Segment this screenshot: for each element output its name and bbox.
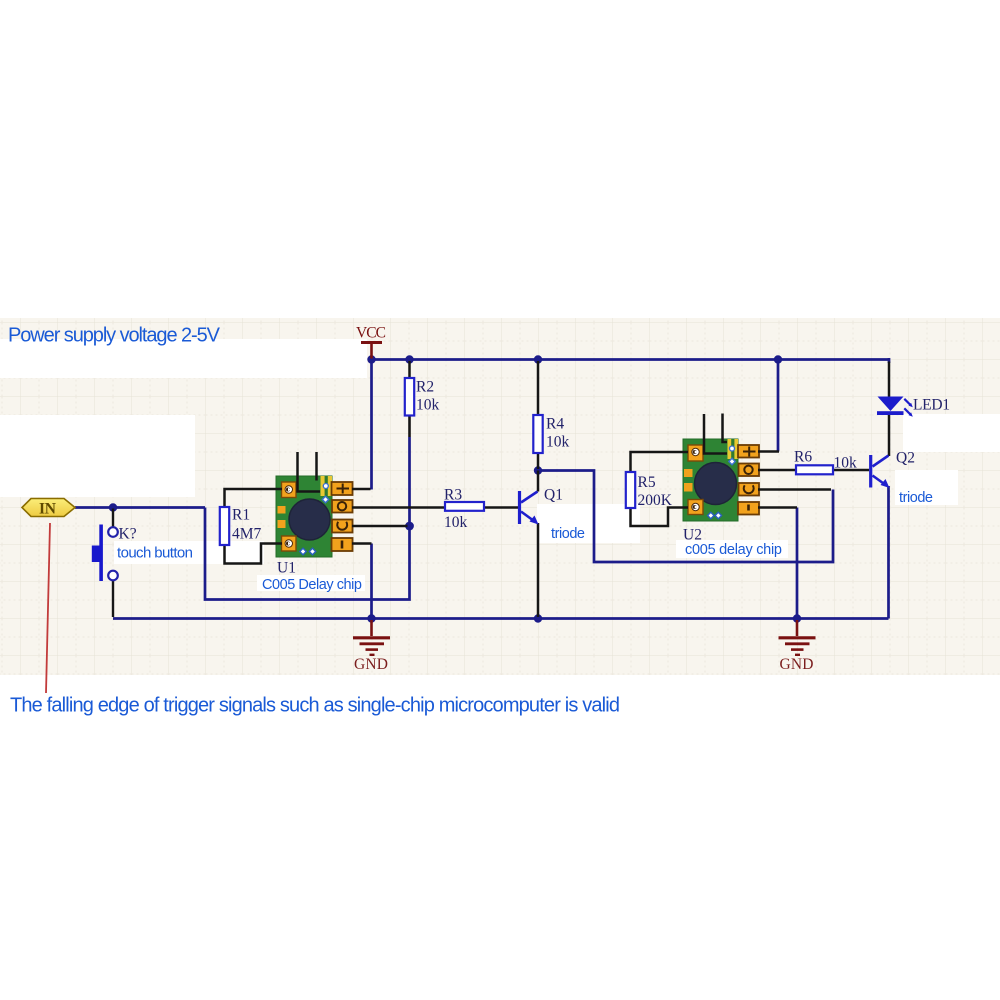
wire Q2 emitter down	[887, 486, 890, 619]
chip U2 epoxy blob	[695, 463, 737, 505]
svg-text:C005 Delay chip: C005 Delay chip	[262, 577, 362, 593]
wire LED to Q2 collector	[888, 414, 891, 456]
schematic grid background	[0, 318, 1000, 675]
transistor Q1	[520, 491, 538, 524]
resistor R5	[626, 472, 635, 508]
wire bus to R2	[408, 361, 411, 378]
chip U1 vias	[323, 484, 328, 489]
chip U2 right pad O	[739, 464, 760, 477]
resistor R4	[533, 415, 542, 453]
svg-text:10k: 10k	[546, 434, 570, 451]
svg-text:triode: triode	[551, 526, 585, 542]
node Q1 collector	[534, 466, 542, 474]
wire U2 I pad down to ground bus	[796, 508, 799, 619]
wire switch top stub	[112, 509, 114, 528]
white patch A (left under top text)	[0, 339, 367, 378]
node VCC stem	[367, 355, 375, 363]
node U2 plus	[774, 355, 782, 363]
svg-text:LED1: LED1	[913, 397, 950, 414]
svg-text:10k: 10k	[416, 397, 440, 414]
LED LED1	[877, 397, 904, 416]
node GND1	[367, 614, 375, 622]
svg-text:200K: 200K	[638, 492, 673, 509]
node R4 top	[534, 355, 542, 363]
chip U1 small left pads	[278, 506, 286, 514]
node IN switch	[109, 503, 117, 511]
wire U2 I pad right	[758, 506, 797, 509]
svg-text:IN: IN	[39, 501, 56, 518]
white patch B (left mid)	[0, 415, 195, 497]
chip U1 right pad +	[332, 482, 353, 495]
wire U1 I pad to ground bus	[370, 544, 373, 619]
red callout line	[46, 523, 50, 693]
power VCC symbol	[361, 343, 382, 359]
wire switch bottom stub	[112, 581, 114, 618]
svg-text:VCC: VCC	[356, 325, 386, 342]
wire R4 bottom to node	[537, 453, 540, 469]
wire R5 bottom step to U2 pad	[631, 508, 689, 527]
wire U1 pin left	[298, 452, 321, 492]
wire Q1 emitter vertical	[537, 523, 540, 617]
chip U2 right pad I	[738, 502, 759, 515]
chip U1 right pad I	[332, 538, 353, 551]
svg-text:The falling edge of trigger si: The falling edge of trigger signals such…	[10, 695, 620, 717]
resistor R6	[796, 465, 833, 474]
white patch E (around Q1 triode)	[537, 504, 640, 543]
svg-text:triode: triode	[899, 490, 933, 506]
chip U2 top-left pad	[688, 445, 703, 461]
svg-text:10k: 10k	[834, 455, 858, 472]
switch K? pushbutton	[99, 525, 103, 582]
white patch G (around C005 Delay chip text)	[257, 575, 365, 591]
svg-text:Q1: Q1	[544, 487, 563, 504]
node R2 top	[405, 355, 413, 363]
wire bottom ground bus	[113, 617, 889, 620]
wire U2 pin right	[723, 414, 728, 443]
svg-text:R1: R1	[232, 507, 250, 524]
white patch H (around c005 delay chip text)	[676, 540, 788, 558]
wire U1 pin right	[315, 452, 318, 481]
net flag IN	[22, 499, 75, 517]
chip U2 board	[683, 439, 738, 521]
chip U1 epoxy blob	[289, 499, 330, 540]
chip U2 small left pads	[684, 469, 693, 477]
ground GND2 symbol	[779, 620, 816, 655]
svg-text:10k: 10k	[444, 514, 468, 531]
svg-text:U2: U2	[683, 527, 702, 544]
wire R3 to Q1 base	[484, 506, 518, 509]
wire Q1 collector to U2 C pad	[538, 471, 833, 563]
wire R2 bottom to node	[408, 416, 411, 438]
wire U1 O pad to R3	[352, 506, 445, 509]
resistor R1	[220, 507, 229, 545]
chip U1 bottom-left pad	[282, 536, 297, 551]
svg-text:Q2: Q2	[896, 450, 915, 467]
wire U2 plus pad right	[758, 450, 779, 453]
svg-text:R5: R5	[638, 474, 656, 491]
transistor Q2	[871, 455, 889, 488]
svg-text:R6: R6	[794, 449, 812, 466]
wire U1 I pad	[352, 542, 372, 545]
svg-text:4M7: 4M7	[232, 526, 262, 543]
wire U1 plus pad	[352, 488, 371, 491]
wire R1 bottom step to U1 pad	[225, 544, 283, 564]
wire VCC feed down to U1 plus	[370, 360, 373, 490]
node GND2	[793, 614, 801, 622]
svg-text:Power supply voltage 2-5V: Power supply voltage 2-5V	[8, 325, 221, 347]
chip U2 bottom-left pad	[688, 500, 703, 515]
node R2 bottom / U1 C	[405, 522, 414, 531]
ground GND1 symbol	[353, 620, 390, 655]
wire R6 to Q2 base	[833, 469, 869, 472]
svg-text:touch button: touch button	[117, 545, 193, 562]
resistor R2	[405, 378, 414, 416]
white patch D (around Q2 triode)	[895, 470, 958, 505]
white patch C (right of LED1)	[903, 414, 1000, 452]
chip U1 right pad O	[332, 500, 353, 513]
wire Q1 collector vertical	[537, 471, 540, 492]
wire LED to bus corner	[888, 362, 891, 398]
svg-text:GND: GND	[354, 656, 388, 673]
resistor R3	[445, 502, 484, 511]
chip U1 right pad C	[332, 520, 353, 533]
svg-text:c005 delay chip: c005 delay chip	[685, 542, 782, 558]
wire U1 C pad to node	[352, 525, 408, 528]
svg-text:GND: GND	[780, 656, 814, 673]
wire U2 pad to R5 top	[631, 452, 689, 472]
wire U2 pin left	[704, 414, 727, 454]
chip U2 vias	[730, 446, 735, 451]
wire top VCC bus	[372, 358, 890, 361]
junction dots	[109, 355, 801, 622]
wire U2 C pad right	[758, 488, 831, 491]
wire U2 O pad to R6	[758, 469, 796, 472]
svg-text:R3: R3	[444, 487, 462, 504]
white patch F (around touch button)	[114, 541, 264, 564]
chip U2 right pad C	[739, 483, 760, 496]
black connector wires	[113, 361, 889, 617]
wire bus right corner down	[888, 358, 891, 363]
svg-text:R2: R2	[416, 379, 434, 396]
wire R1 top to U1 pad	[225, 489, 283, 507]
svg-text:U1: U1	[277, 560, 296, 577]
chip U1 board	[276, 476, 332, 557]
svg-text:R4: R4	[546, 416, 564, 433]
chip U1 top-left pad	[282, 482, 297, 498]
wire bus to R4	[537, 361, 540, 415]
svg-text:K?: K?	[119, 526, 137, 543]
chip U2 right pad +	[738, 445, 759, 458]
node Q1 emitter ground	[534, 614, 542, 622]
wire IN node low loop	[205, 508, 410, 600]
wire IN flag to corner	[75, 506, 205, 509]
wire U2 plus pad up to bus	[777, 360, 780, 452]
